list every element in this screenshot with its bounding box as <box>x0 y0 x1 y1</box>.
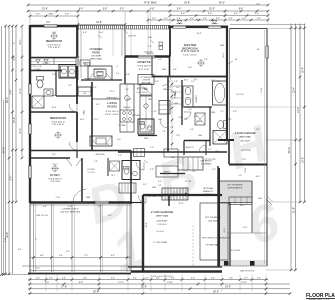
svg-text:10'-8": 10'-8" <box>51 107 56 109</box>
svg-text:14'-0": 14'-0" <box>79 119 84 121</box>
svg-text:6'-8": 6'-8" <box>106 144 110 146</box>
svg-text:COVERED PORCH: COVERED PORCH <box>62 209 79 211</box>
svg-text:34'-8": 34'-8" <box>184 1 190 4</box>
svg-text:STUDY: STUDY <box>50 173 61 177</box>
svg-text:6'-4": 6'-4" <box>216 77 220 79</box>
svg-text:20'-8": 20'-8" <box>146 222 148 228</box>
svg-text:FOYER: FOYER <box>88 169 95 171</box>
svg-text:±450 SQFT: ±450 SQFT <box>156 221 168 223</box>
svg-text:O 9'-0 CLG O: O 9'-0 CLG O <box>136 92 148 94</box>
svg-text:5'-8": 5'-8" <box>176 135 180 137</box>
svg-text:5'-4": 5'-4" <box>177 8 182 10</box>
svg-text:5'-0": 5'-0" <box>52 74 56 76</box>
svg-text:±245 SQFT: ±245 SQFT <box>240 141 251 143</box>
svg-text:8'-0": 8'-0" <box>181 13 186 15</box>
svg-text:2'-8": 2'-8" <box>242 159 246 161</box>
svg-text:4'-0": 4'-0" <box>216 18 220 20</box>
svg-text:3'-0": 3'-0" <box>117 139 121 141</box>
svg-text:DINETTE: DINETTE <box>137 60 151 64</box>
svg-text:2'-0": 2'-0" <box>145 277 149 279</box>
svg-text:9'-4": 9'-4" <box>11 90 13 95</box>
svg-text:SHWR: SHWR <box>196 121 202 123</box>
svg-text:2'-8": 2'-8" <box>94 161 98 163</box>
svg-text:10'-0": 10'-0" <box>20 128 22 134</box>
svg-text:41'-8": 41'-8" <box>96 22 102 24</box>
svg-text:7'-0": 7'-0" <box>84 255 88 257</box>
svg-text:8'-0": 8'-0" <box>184 80 188 82</box>
svg-text:40'-0": 40'-0" <box>219 1 225 4</box>
svg-text:8'-0": 8'-0" <box>66 251 70 253</box>
svg-text:KITCHEN: KITCHEN <box>132 115 141 117</box>
svg-text:2'-8": 2'-8" <box>97 76 101 78</box>
svg-text:5'-4": 5'-4" <box>257 18 261 20</box>
svg-text:2'-10": 2'-10" <box>56 197 61 199</box>
svg-text:M.W.I.C.: M.W.I.C. <box>186 147 195 149</box>
svg-text:5068 BIFOLD: 5068 BIFOLD <box>94 69 106 71</box>
svg-text:23'-4": 23'-4" <box>293 87 296 93</box>
svg-text:13'-0": 13'-0" <box>298 107 300 113</box>
svg-text:16'-4": 16'-4" <box>303 67 305 73</box>
svg-text:O 8'-0 CLG O: O 8'-0 CLG O <box>48 178 62 180</box>
svg-text:16'-0": 16'-0" <box>6 232 9 238</box>
svg-text:17'-4": 17'-4" <box>109 91 114 93</box>
svg-text:4'-4": 4'-4" <box>203 18 207 20</box>
svg-text:8'-0 CLG: 8'-0 CLG <box>236 94 244 96</box>
svg-text:OPT DOOR: OPT DOOR <box>205 159 216 161</box>
svg-text:W.I.C.: W.I.C. <box>215 151 221 153</box>
svg-text:19'-8": 19'-8" <box>178 203 183 205</box>
svg-text:STAIRS TO: STAIRS TO <box>203 190 214 193</box>
svg-text:BEDROOM: BEDROOM <box>46 39 62 43</box>
svg-text:4" CONC SLAB: 4" CONC SLAB <box>153 241 168 244</box>
svg-text:50'-0": 50'-0" <box>2 147 6 154</box>
svg-text:8'-4": 8'-4" <box>79 8 84 10</box>
svg-text:LINE OF CLG: LINE OF CLG <box>36 215 48 217</box>
svg-text:5'-2": 5'-2" <box>65 14 70 16</box>
svg-text:±170 SQFT: ±170 SQFT <box>91 56 102 58</box>
svg-text:COUNTER: COUNTER <box>142 80 151 82</box>
svg-text:11'-4" x 8'-0": 11'-4" x 8'-0" <box>138 69 149 71</box>
svg-text:5'-0": 5'-0" <box>98 206 102 208</box>
svg-text:2'-8": 2'-8" <box>68 85 72 87</box>
svg-text:2'-6": 2'-6" <box>178 117 182 119</box>
svg-text:2'-0": 2'-0" <box>152 18 156 20</box>
svg-text:8'-0": 8'-0" <box>18 249 22 251</box>
svg-text:6'-8": 6'-8" <box>126 74 130 76</box>
svg-text:9'-0 CLG: 9'-0 CLG <box>156 231 164 233</box>
svg-text:4'-4": 4'-4" <box>229 18 233 20</box>
svg-text:3'-4": 3'-4" <box>173 69 177 71</box>
svg-text:3'-4": 3'-4" <box>244 277 248 279</box>
svg-text:OPT 4' FLAT CLG @ BONUS RM: OPT 4' FLAT CLG @ BONUS RM <box>202 237 231 240</box>
svg-text:9'-8": 9'-8" <box>208 13 213 15</box>
svg-text:3068: 3068 <box>152 187 156 189</box>
svg-text:2'-8": 2'-8" <box>174 81 178 83</box>
svg-text:ROOM: ROOM <box>107 104 117 108</box>
svg-text:5'-0": 5'-0" <box>255 13 260 15</box>
svg-text:3068: 3068 <box>86 197 90 199</box>
svg-text:LINE OF ROOF: LINE OF ROOF <box>240 271 255 273</box>
svg-text:15'-4" x 18'-0": 15'-4" x 18'-0" <box>105 114 119 116</box>
svg-text:CLOSET: CLOSET <box>42 63 50 65</box>
svg-text:13'-8": 13'-8" <box>167 282 173 284</box>
svg-text:11'-0": 11'-0" <box>241 282 247 284</box>
svg-text:50'-0": 50'-0" <box>287 147 291 154</box>
svg-text:21'-0": 21'-0" <box>261 87 263 93</box>
svg-text:74'-8" MAX: 74'-8" MAX <box>144 0 157 4</box>
svg-text:15'-4": 15'-4" <box>14 117 16 123</box>
svg-text:OPT 4TH BDRM /: OPT 4TH BDRM / <box>227 185 243 187</box>
svg-text:4'-0": 4'-0" <box>52 154 56 156</box>
svg-text:OPT 4TH BDRM /: OPT 4TH BDRM / <box>205 217 221 219</box>
svg-text:9'-0": 9'-0" <box>45 282 50 284</box>
svg-text:OPTIONAL: OPTIONAL <box>203 187 214 190</box>
svg-text:39'-0": 39'-0" <box>213 290 219 293</box>
svg-text:3'-0": 3'-0" <box>96 104 100 106</box>
svg-text:4'-8": 4'-8" <box>83 32 87 34</box>
svg-text:2'-4": 2'-4" <box>76 57 80 59</box>
svg-text:4'-0": 4'-0" <box>176 87 180 89</box>
svg-text:9'-0": 9'-0" <box>256 129 260 131</box>
svg-text:5'-4": 5'-4" <box>204 59 208 61</box>
svg-text:2'-8": 2'-8" <box>162 131 166 133</box>
svg-text:M.BATH: M.BATH <box>195 95 198 103</box>
svg-text:16'-0": 16'-0" <box>256 176 261 178</box>
svg-text:BONUS: BONUS <box>204 194 212 196</box>
svg-text:2'-6": 2'-6" <box>93 87 97 89</box>
svg-text:CLOSET: CLOSET <box>33 69 41 71</box>
svg-text:9'-8": 9'-8" <box>11 176 13 181</box>
svg-text:BONUS ABOVE: BONUS ABOVE <box>228 187 243 190</box>
svg-text:6'-8": 6'-8" <box>190 129 194 131</box>
svg-text:O 8'-0 CLG O: O 8'-0 CLG O <box>51 121 65 123</box>
svg-text:2 CAR GARAGE: 2 CAR GARAGE <box>150 210 175 214</box>
svg-text:3'-8": 3'-8" <box>229 277 233 279</box>
svg-text:22'-8": 22'-8" <box>141 287 147 289</box>
svg-text:UP 14R: UP 14R <box>185 181 192 183</box>
svg-text:(SEE PLAN): (SEE PLAN) <box>239 135 251 138</box>
svg-text:12'-4": 12'-4" <box>42 8 48 10</box>
svg-text:5'-0": 5'-0" <box>208 149 212 151</box>
svg-text:21'-8": 21'-8" <box>245 167 247 173</box>
svg-text:OPT WET BAR: OPT WET BAR <box>206 244 220 247</box>
svg-text:9'-0 CLG: 9'-0 CLG <box>158 224 167 226</box>
svg-text:29'-4": 29'-4" <box>6 97 9 103</box>
svg-text:2668: 2668 <box>144 138 148 140</box>
svg-text:±224 SQFT: ±224 SQFT <box>208 221 219 223</box>
svg-text:4'-0": 4'-0" <box>108 215 112 217</box>
svg-text:4'-4": 4'-4" <box>43 206 47 208</box>
svg-text:PATIO: PATIO <box>92 50 99 54</box>
svg-text:O 9'-0 CLG O: O 9'-0 CLG O <box>181 49 200 53</box>
svg-text:10'-0": 10'-0" <box>98 32 103 34</box>
svg-text:MUD: MUD <box>171 157 176 159</box>
svg-text:(SEE PLAN): (SEE PLAN) <box>156 214 168 217</box>
svg-text:3'-4": 3'-4" <box>49 277 53 279</box>
svg-text:2'-4": 2'-4" <box>150 147 154 149</box>
svg-text:5'-0": 5'-0" <box>120 8 125 10</box>
svg-text:15'-8": 15'-8" <box>196 33 201 35</box>
svg-text:17'-8": 17'-8" <box>61 287 67 289</box>
svg-text:COVERED: COVERED <box>90 47 103 51</box>
svg-text:4040: 4040 <box>49 14 55 16</box>
svg-text:20'-0": 20'-0" <box>35 268 40 270</box>
svg-text:4'-4": 4'-4" <box>211 277 215 279</box>
svg-text:2'-0": 2'-0" <box>158 59 162 61</box>
svg-text:6'-4": 6'-4" <box>234 13 239 15</box>
svg-text:4046 SH: 4046 SH <box>146 53 154 55</box>
svg-text:OPT DOOR: OPT DOOR <box>230 250 241 252</box>
svg-text:3'-4": 3'-4" <box>257 277 261 279</box>
svg-text:17'-4": 17'-4" <box>94 119 99 121</box>
svg-text:6'-8": 6'-8" <box>150 8 155 10</box>
svg-text:4'-0": 4'-0" <box>242 18 246 20</box>
svg-text:8'-0": 8'-0" <box>20 40 22 45</box>
svg-text:DW: DW <box>125 89 128 91</box>
svg-text:16'-0": 16'-0" <box>239 205 244 207</box>
svg-text:DOORS: DOORS <box>96 72 103 74</box>
svg-text:2668: 2668 <box>198 135 202 137</box>
svg-text:HALL: HALL <box>174 91 177 96</box>
svg-text:(SEE PLAN): (SEE PLAN) <box>90 58 102 61</box>
svg-text:6'-4": 6'-4" <box>111 255 115 257</box>
svg-text:16'-4": 16'-4" <box>223 52 225 58</box>
svg-text:19'-8": 19'-8" <box>303 157 305 163</box>
svg-text:BEDROOM: BEDROOM <box>50 116 66 120</box>
svg-text:7'-8" CLG: 7'-8" CLG <box>50 181 60 183</box>
svg-text:1 CAR GARAGE: 1 CAR GARAGE <box>235 131 256 135</box>
svg-text:2'-8": 2'-8" <box>150 169 154 171</box>
svg-text:11'-0": 11'-0" <box>118 282 124 284</box>
svg-text:2'-8": 2'-8" <box>155 81 159 83</box>
svg-text:O 9'-0 CLG O: O 9'-0 CLG O <box>137 65 151 67</box>
svg-text:19'-0": 19'-0" <box>225 287 231 289</box>
svg-text:4'-0": 4'-0" <box>190 18 194 20</box>
svg-text:35'-8": 35'-8" <box>93 290 99 293</box>
svg-text:7'-8" x 10'-0": 7'-8" x 10'-0" <box>52 124 64 126</box>
svg-text:3'-0": 3'-0" <box>188 109 192 111</box>
svg-text:±208 SQFT (SEE PLAN): ±208 SQFT (SEE PLAN) <box>60 211 80 214</box>
svg-text:4'-4": 4'-4" <box>36 277 40 279</box>
svg-text:HALL: HALL <box>83 110 86 115</box>
svg-text:4'-0": 4'-0" <box>164 18 168 20</box>
svg-text:6'-4": 6'-4" <box>194 116 198 118</box>
svg-text:6'-0": 6'-0" <box>211 80 215 82</box>
svg-text:O 8'-0 CLG O: O 8'-0 CLG O <box>47 44 61 46</box>
svg-text:7'-8" x 10'-4": 7'-8" x 10'-4" <box>48 47 60 49</box>
svg-text:& CUBBIES: & CUBBIES <box>201 164 212 166</box>
svg-text:10'-0": 10'-0" <box>209 8 215 10</box>
svg-text:11'-0": 11'-0" <box>20 88 22 94</box>
svg-text:3'-0": 3'-0" <box>158 181 162 183</box>
svg-text:4x4 POST: 4x4 POST <box>128 36 137 38</box>
svg-text:5'-2": 5'-2" <box>36 14 41 16</box>
svg-text:2'-8": 2'-8" <box>228 119 232 121</box>
svg-text:8'-8": 8'-8" <box>79 282 84 284</box>
svg-text:4050 SGD: 4050 SGD <box>95 154 105 156</box>
svg-text:2030: 2030 <box>174 103 178 105</box>
svg-text:5'-0": 5'-0" <box>59 255 63 257</box>
svg-text:2'-4": 2'-4" <box>148 127 152 129</box>
svg-text:2'-0": 2'-0" <box>238 175 242 177</box>
svg-text:5'-0": 5'-0" <box>118 155 122 157</box>
svg-text:9'-4": 9'-4" <box>148 46 152 48</box>
svg-text:4'-8": 4'-8" <box>212 169 216 171</box>
svg-text:5'-4": 5'-4" <box>143 184 147 186</box>
svg-text:6'-8": 6'-8" <box>14 56 16 61</box>
svg-text:2668: 2668 <box>220 45 224 47</box>
svg-text:2'-0: 2'-0 <box>116 73 119 75</box>
svg-text:5'-8": 5'-8" <box>103 8 108 10</box>
svg-text:3'-6": 3'-6" <box>68 206 72 208</box>
svg-text:OPT STOR: OPT STOR <box>241 150 251 152</box>
svg-text:1'-0": 1'-0" <box>256 3 260 5</box>
svg-text:15'-8": 15'-8" <box>188 67 193 69</box>
svg-text:RANGE: RANGE <box>124 106 131 109</box>
svg-text:4'-0": 4'-0" <box>233 111 237 113</box>
svg-text:13'-4": 13'-4" <box>126 99 131 101</box>
svg-text:5'-8": 5'-8" <box>83 277 87 279</box>
svg-text:2'-0": 2'-0" <box>220 111 224 113</box>
svg-text:11'-8": 11'-8" <box>224 227 226 232</box>
svg-text:5068: 5068 <box>211 112 215 114</box>
svg-text:13'-4" x 15'-0": 13'-4" x 15'-0" <box>183 55 197 57</box>
svg-text:5'-0": 5'-0" <box>191 81 195 83</box>
svg-text:5068: 5068 <box>158 119 162 121</box>
svg-text:3'-4": 3'-4" <box>133 277 137 279</box>
svg-text:9'-0 CLG: 9'-0 CLG <box>87 172 95 174</box>
svg-text:3068: 3068 <box>162 69 166 71</box>
svg-text:21'-8": 21'-8" <box>293 207 296 213</box>
svg-text:3'-4": 3'-4" <box>192 171 196 173</box>
svg-text:16'-8" x 8'-0" OH DOOR: 16'-8" x 8'-0" OH DOOR <box>151 276 173 278</box>
svg-text:3'-0": 3'-0" <box>153 111 157 113</box>
svg-text:4'-4": 4'-4" <box>177 18 181 20</box>
svg-text:5'-4": 5'-4" <box>111 277 115 279</box>
svg-text:5'-0": 5'-0" <box>191 277 195 279</box>
svg-text:O 9'-0 CLG O: O 9'-0 CLG O <box>105 111 119 113</box>
svg-text:4'-4": 4'-4" <box>40 255 44 257</box>
svg-text:BATH: BATH <box>52 94 58 97</box>
svg-text:11'-4": 11'-4" <box>243 227 248 229</box>
svg-text:4'-4": 4'-4" <box>62 277 66 279</box>
svg-text:42" BAR: 42" BAR <box>118 124 126 127</box>
svg-text:9'-4": 9'-4" <box>239 8 244 10</box>
